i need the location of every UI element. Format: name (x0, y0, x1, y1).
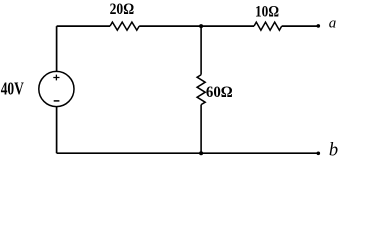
svg-text:b: b (329, 141, 338, 161)
plus sign inside source (53, 75, 59, 81)
svg-text:10Ω: 10Ω (255, 3, 279, 20)
resistor R3 60ohm vertical zigzag (197, 75, 205, 105)
svg-text:60Ω: 60Ω (206, 84, 233, 101)
wire top-left horizontal (source top to 20ohm) (57, 25, 110, 27)
node b terminal dot (317, 152, 321, 156)
resistor R2 10ohm zigzag (254, 22, 282, 30)
minus sign inside source (54, 100, 60, 102)
voltage source V1 circle (39, 71, 74, 106)
wire left vertical upper (source to top wire) (56, 26, 58, 71)
wire top-middle horizontal (20ohm to junction to 10ohm) (139, 25, 254, 27)
resistor R1 20ohm zigzag (110, 22, 139, 30)
wire top-right to terminal a (282, 25, 319, 27)
wire middle vertical upper (junction to 60ohm) (200, 26, 202, 75)
junction node top (dot) (199, 24, 203, 28)
junction node bottom (dot) (199, 151, 203, 155)
node a terminal dot (317, 24, 321, 28)
svg-text:20Ω: 20Ω (110, 1, 135, 18)
svg-text:40V: 40V (1, 78, 24, 98)
wire left vertical lower (source to bottom wire) (56, 107, 58, 154)
wire middle vertical lower (60ohm to bottom wire) (200, 105, 202, 154)
svg-text:a: a (329, 16, 337, 32)
wire bottom horizontal (57, 152, 319, 154)
